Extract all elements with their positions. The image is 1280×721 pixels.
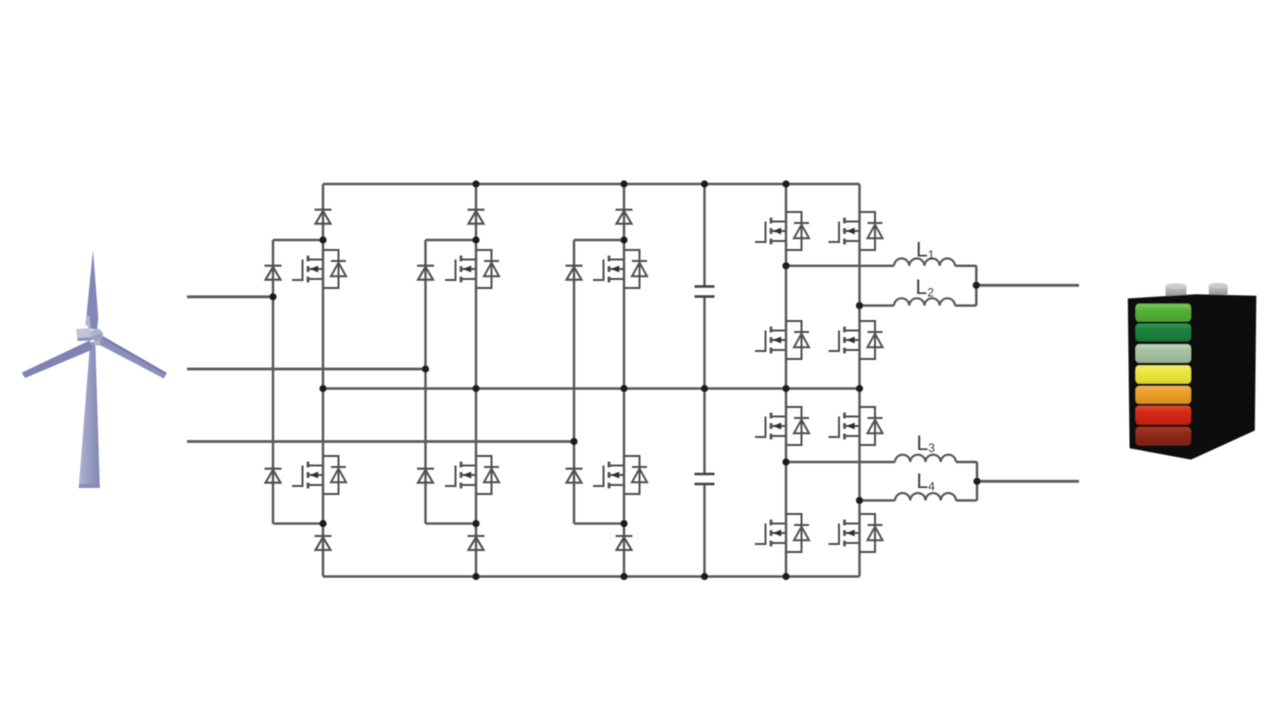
svg-text:L2: L2 <box>916 276 935 299</box>
svg-text:L3: L3 <box>917 432 936 455</box>
svg-text:L1: L1 <box>916 239 935 262</box>
svg-text:L4: L4 <box>917 470 936 493</box>
